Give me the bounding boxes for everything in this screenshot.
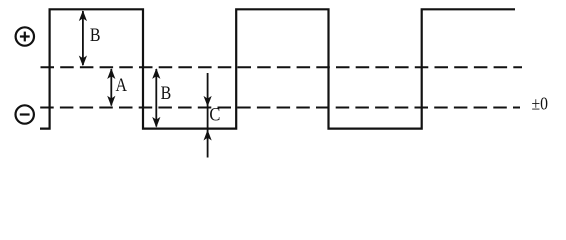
lower dashed reference line (±0 level) — [40, 107, 520, 109]
circled minus symbol — [16, 105, 34, 123]
svg-text:B: B — [90, 26, 101, 46]
svg-text:B: B — [161, 84, 172, 104]
upper dashed reference line — [41, 66, 523, 68]
svg-text:C: C — [209, 105, 220, 125]
dimension arrow A (between dashed lines) — [107, 68, 115, 106]
dimension arrow B2 (upper dashed line to bottom line) — [152, 68, 160, 127]
circled plus symbol — [16, 27, 34, 45]
dimension arrow B1 (top line to upper dashed line) — [79, 10, 87, 66]
dimension arrows C (lower dashed line to bottom line, arrows outside) — [204, 73, 212, 158]
svg-text:±0: ±0 — [532, 94, 549, 114]
square-wave trace — [40, 9, 515, 128]
svg-text:A: A — [116, 76, 128, 96]
